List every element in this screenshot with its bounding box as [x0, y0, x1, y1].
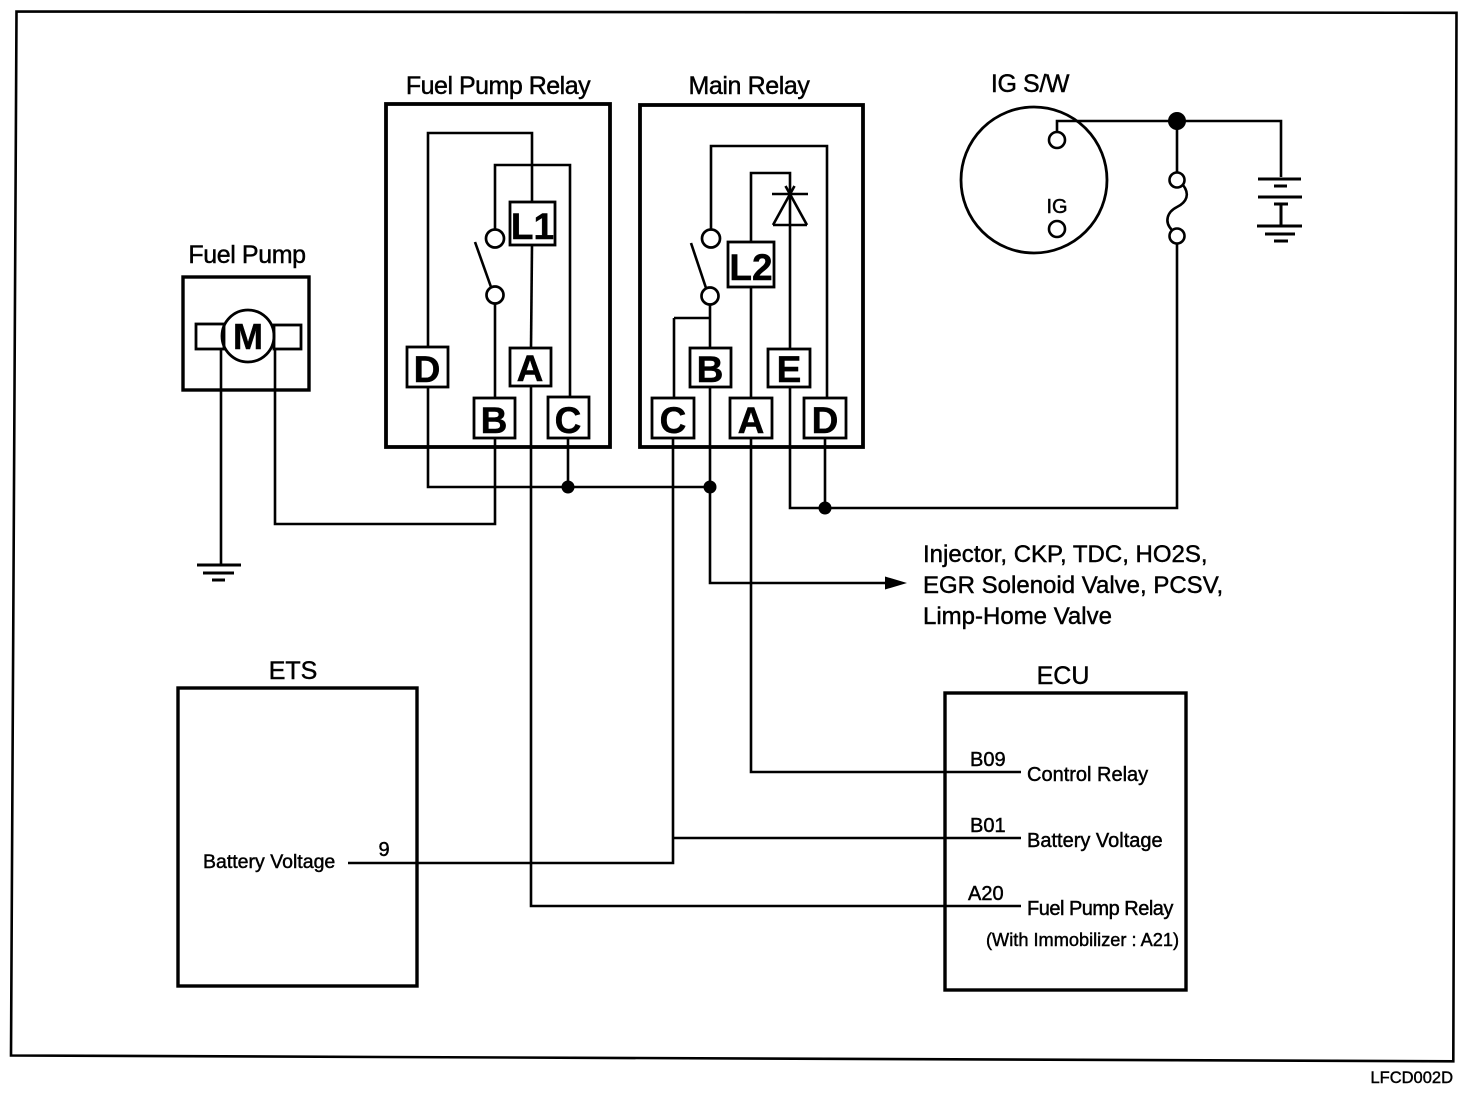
- svg-text:B: B: [697, 349, 724, 390]
- svg-text:C: C: [660, 400, 687, 441]
- svg-text:Fuel Pump Relay: Fuel Pump Relay: [1027, 898, 1173, 920]
- svg-text:A20: A20: [968, 883, 1004, 905]
- svg-text:L1: L1: [511, 206, 554, 247]
- svg-text:L2: L2: [729, 247, 772, 288]
- svg-text:B09: B09: [970, 749, 1006, 771]
- svg-text:EGR Solenoid Valve, PCSV,: EGR Solenoid Valve, PCSV,: [923, 572, 1223, 599]
- svg-text:IG: IG: [1046, 196, 1067, 218]
- svg-text:E: E: [777, 349, 802, 390]
- svg-text:Main Relay: Main Relay: [688, 72, 810, 100]
- svg-text:Fuel Pump Relay: Fuel Pump Relay: [406, 72, 591, 100]
- svg-text:B: B: [481, 400, 508, 441]
- svg-text:D: D: [812, 400, 839, 441]
- svg-text:Fuel Pump: Fuel Pump: [188, 241, 305, 269]
- svg-text:ECU: ECU: [1037, 662, 1090, 690]
- svg-text:IG S/W: IG S/W: [991, 70, 1070, 98]
- svg-text:9: 9: [378, 839, 389, 861]
- svg-text:LFCD002D: LFCD002D: [1370, 1069, 1453, 1087]
- svg-text:D: D: [414, 349, 441, 390]
- svg-text:M: M: [233, 316, 263, 357]
- svg-text:Battery Voltage: Battery Voltage: [203, 851, 335, 873]
- svg-text:Battery Voltage: Battery Voltage: [1027, 830, 1163, 852]
- svg-text:A: A: [738, 400, 765, 441]
- svg-text:Limp-Home Valve: Limp-Home Valve: [923, 603, 1112, 630]
- svg-text:Injector, CKP, TDC, HO2S,: Injector, CKP, TDC, HO2S,: [923, 541, 1208, 568]
- svg-text:C: C: [555, 400, 582, 441]
- svg-text:ETS: ETS: [269, 657, 318, 685]
- svg-text:Control Relay: Control Relay: [1027, 764, 1148, 786]
- svg-text:(With Immobilizer : A21): (With Immobilizer : A21): [986, 930, 1179, 950]
- svg-text:B01: B01: [970, 815, 1006, 837]
- svg-text:A: A: [517, 348, 544, 389]
